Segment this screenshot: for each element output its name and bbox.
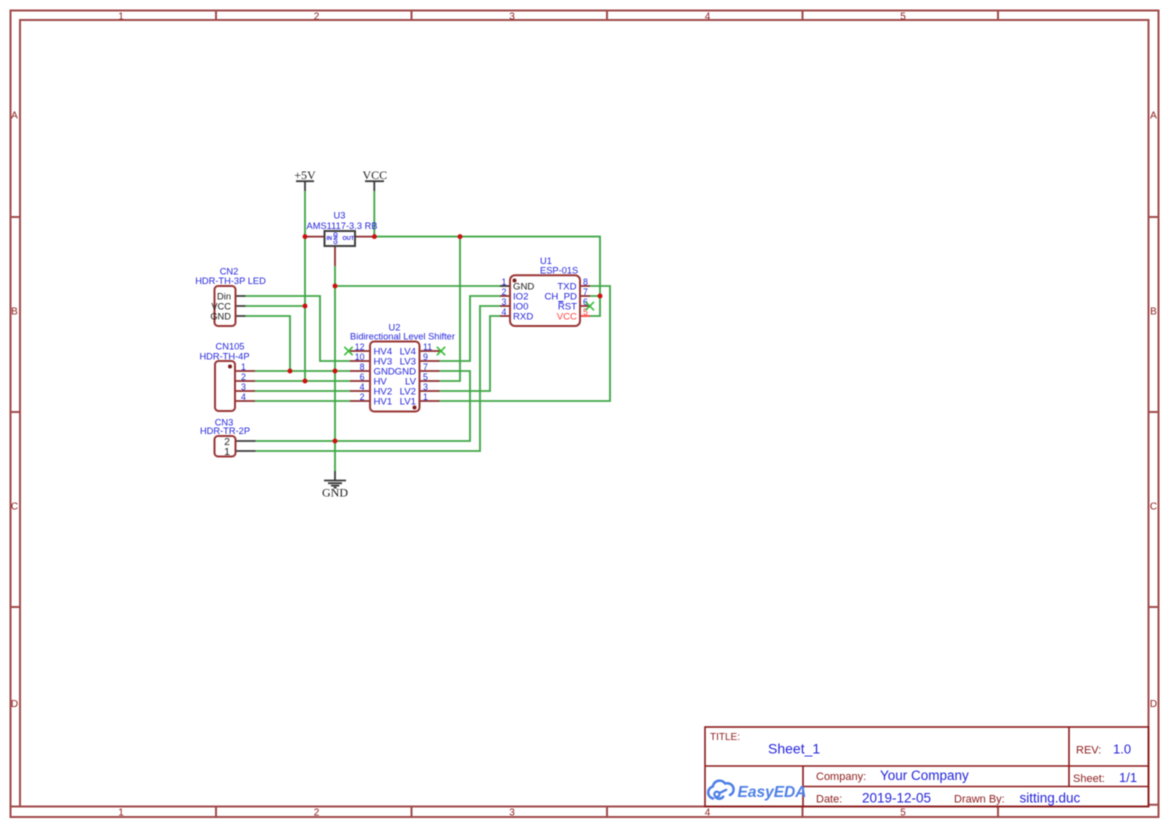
wire GND to U1 pin1 — [335, 285, 500, 287]
svg-text:U1: U1 — [540, 256, 552, 266]
junction GND vertical / GND row — [333, 369, 338, 374]
svg-text:OUT: OUT — [343, 236, 355, 242]
svg-text:1: 1 — [241, 362, 246, 372]
svg-text:4: 4 — [705, 808, 711, 819]
svg-text:10: 10 — [355, 352, 365, 362]
connector CN3 — [200, 418, 256, 458]
svg-text:1/1: 1/1 — [1119, 770, 1137, 785]
svg-text:5: 5 — [423, 372, 428, 382]
svg-text:GND: GND — [322, 486, 348, 500]
svg-text:1: 1 — [423, 392, 428, 402]
svg-text:GND: GND — [210, 312, 231, 322]
svg-text:ESP-01S: ESP-01S — [540, 266, 578, 276]
wire GND vertical — [334, 266, 336, 471]
wire +5V vertical — [304, 191, 306, 381]
svg-text:8: 8 — [583, 277, 588, 287]
svg-text:1: 1 — [118, 12, 124, 23]
wire row CN105.1 to U2.8 — [255, 370, 350, 372]
svg-text:CN105: CN105 — [216, 342, 245, 352]
svg-text:Drawn By:: Drawn By: — [954, 794, 1005, 806]
svg-text:2019-12-05: 2019-12-05 — [862, 791, 931, 806]
svg-text:HDR-TR-2P: HDR-TR-2P — [200, 426, 250, 436]
svg-text:3: 3 — [241, 382, 246, 392]
svg-text:Your Company: Your Company — [880, 768, 969, 783]
svg-text:Sheet:: Sheet: — [1073, 773, 1105, 785]
svg-text:Date:: Date: — [816, 794, 842, 806]
svg-text:Din: Din — [217, 292, 231, 302]
svg-text:B: B — [1150, 307, 1157, 318]
junction +5V / CN2.VCC — [303, 304, 308, 309]
svg-text:8: 8 — [360, 362, 365, 372]
EasyEDA logo — [708, 781, 806, 801]
svg-text:1.0: 1.0 — [1113, 742, 1131, 757]
power flag VCC (top) — [362, 168, 387, 191]
svg-text:Bidirectional Level Shifter: Bidirectional Level Shifter — [350, 332, 455, 342]
svg-text:RXD: RXD — [513, 312, 533, 323]
svg-text:REV:: REV: — [1076, 745, 1101, 757]
junction +5V / CN105.2 row — [303, 379, 308, 384]
svg-text:D: D — [11, 699, 18, 710]
svg-text:HDR-TH-3P LED: HDR-TH-3P LED — [195, 276, 266, 286]
junction CN2.GND riser / GND row — [288, 369, 293, 374]
svg-text:11: 11 — [423, 342, 432, 352]
svg-text:3: 3 — [509, 808, 515, 819]
svg-text:1: 1 — [224, 446, 230, 458]
svg-text:CN2: CN2 — [220, 267, 239, 277]
svg-text:IN: IN — [327, 236, 333, 242]
svg-text:Sheet_1: Sheet_1 — [768, 741, 820, 757]
wire U2.GND7 to CN3.2 — [256, 371, 471, 441]
svg-text:TITLE:: TITLE: — [710, 732, 740, 743]
svg-text:VCC: VCC — [211, 302, 231, 312]
wire U1.IO0 to CN3.1 — [256, 306, 501, 451]
no-connect flag U1 pin 6 RST — [586, 302, 594, 310]
svg-text:C: C — [1150, 502, 1157, 513]
junction VCC rail / U2.LV riser — [458, 234, 463, 239]
svg-text:sitting.duc: sitting.duc — [1020, 791, 1081, 806]
level shifter U2 — [350, 323, 455, 412]
junction VCC flag / U3.OUT — [372, 234, 377, 239]
junction VCC riser / U1.CH_PD — [598, 294, 603, 299]
svg-text:1: 1 — [502, 277, 507, 287]
svg-text:LV1: LV1 — [400, 397, 416, 408]
svg-text:4: 4 — [705, 12, 711, 23]
svg-text:2: 2 — [241, 372, 246, 382]
svg-text:2: 2 — [314, 808, 320, 819]
svg-text:+5V: +5V — [294, 168, 316, 182]
wire row CN105.3 to U2.HV2 — [255, 390, 350, 392]
ESP module U1 — [500, 256, 590, 326]
svg-text:5: 5 — [900, 12, 906, 23]
svg-text:6: 6 — [360, 372, 365, 382]
svg-text:C: C — [11, 502, 18, 513]
wire U1.IO2 to U2.LV3 — [440, 296, 501, 361]
power flag GND (bottom) — [322, 471, 348, 500]
svg-text:Company:: Company: — [816, 771, 866, 783]
svg-text:4: 4 — [241, 392, 246, 402]
svg-text:2: 2 — [314, 12, 320, 23]
wire CN2.GND down — [246, 316, 291, 371]
power flag +5V — [294, 168, 316, 191]
wire VCC rail to U1 — [375, 237, 600, 316]
wire VCC flag to U3.OUT rail — [373, 191, 375, 236]
wire CN2.Din to U2.HV3 — [246, 296, 351, 361]
voltage regulator U3 — [305, 211, 377, 267]
wire U2.LV1 to U1.TXD — [440, 286, 611, 401]
svg-text:A: A — [1150, 111, 1157, 122]
svg-text:3: 3 — [509, 12, 515, 23]
svg-text:7: 7 — [423, 362, 428, 372]
svg-text:D: D — [1150, 699, 1157, 710]
wire row CN105.2 to U2.HV — [255, 380, 350, 382]
svg-text:2: 2 — [502, 287, 507, 297]
svg-text:4: 4 — [502, 307, 507, 317]
svg-text:9: 9 — [423, 352, 428, 362]
svg-text:A: A — [11, 111, 18, 122]
svg-text:AMS1117-3.3 RB: AMS1117-3.3 RB — [307, 221, 378, 231]
svg-text:VCC: VCC — [557, 312, 577, 323]
svg-text:3: 3 — [502, 297, 507, 307]
wire U1.RXD to U2.LV2 — [440, 316, 501, 391]
svg-text:2: 2 — [360, 392, 365, 402]
svg-text:B: B — [11, 307, 18, 318]
svg-text:U3: U3 — [334, 211, 346, 221]
svg-text:7: 7 — [583, 287, 588, 297]
no-connect flag U2 pin 11 — [437, 347, 445, 355]
junction GND vertical / U1.GND row — [333, 284, 338, 289]
svg-text:5: 5 — [900, 808, 906, 819]
svg-text:VCC: VCC — [362, 168, 387, 182]
connector CN105 — [199, 342, 255, 412]
svg-text:EasyEDA: EasyEDA — [738, 784, 807, 801]
svg-text:HV1: HV1 — [374, 397, 393, 408]
wire row CN105.4 to U2.HV1 — [255, 400, 350, 402]
svg-text:4: 4 — [360, 382, 365, 392]
junction +5V / U3.IN — [303, 234, 308, 239]
wire CN2.VCC to +5V — [246, 305, 306, 307]
svg-text:12: 12 — [355, 342, 365, 352]
svg-text:1: 1 — [118, 808, 124, 819]
junction GND vertical / CN3.2 row — [333, 439, 338, 444]
wire U2.LV to VCC rail — [440, 237, 461, 381]
svg-text:3: 3 — [423, 382, 428, 392]
connector CN2 — [195, 267, 266, 327]
no-connect flag U2 pin 12 — [344, 347, 352, 355]
svg-text:GND: GND — [334, 232, 340, 244]
title block — [705, 727, 1149, 807]
